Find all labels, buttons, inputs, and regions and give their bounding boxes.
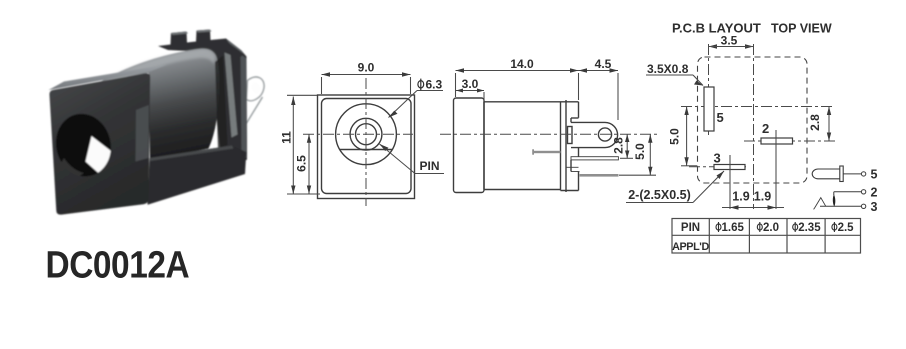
svg-text:PIN: PIN — [681, 222, 700, 234]
svg-text:9.0: 9.0 — [358, 61, 375, 75]
dimension line 9.0 — [322, 74, 411, 76]
pin loop (metal) — [247, 77, 265, 101]
dimension line 5.0 (side) — [649, 134, 651, 175]
extension lines — [455, 73, 457, 97]
dims front view — [287, 75, 444, 195]
dimension line 11 — [292, 97, 294, 195]
svg-text:3.0: 3.0 — [462, 77, 479, 91]
tray rim light edge — [150, 146, 234, 162]
pin tail wire — [241, 97, 263, 133]
switch junction drop from pin 2 wire — [833, 192, 835, 195]
svg-text:3: 3 — [871, 200, 878, 214]
tick slot 3 level — [681, 165, 697, 167]
wire pin 2 — [834, 191, 862, 193]
svg-text:2.35: 2.35 — [798, 222, 821, 234]
dimension line 3.5 — [709, 46, 754, 48]
svg-text:14.0: 14.0 — [510, 57, 534, 71]
pad slot pin 5 — [704, 87, 714, 131]
tray (lower body) — [148, 146, 247, 205]
center pin (side view) — [533, 151, 561, 153]
wedge of light inside hole — [86, 136, 114, 178]
svg-text:2.0: 2.0 — [763, 222, 779, 234]
center pin circle — [356, 124, 377, 145]
front view outer flange square — [318, 95, 415, 199]
front view horizontal centerline — [303, 133, 413, 135]
dimension line 2.8 (pcb) — [828, 107, 830, 142]
post top bevel light — [226, 39, 245, 55]
svg-text:4.5: 4.5 — [595, 57, 612, 71]
svg-text:2: 2 — [762, 121, 769, 136]
slot 3 centerline — [689, 166, 749, 168]
pcb body outline (dashed) — [698, 57, 808, 183]
dimension line 14.0 — [456, 70, 579, 72]
wire pin 3 — [820, 205, 861, 207]
svg-text:APPL'D: APPL'D — [672, 241, 709, 253]
pcb vertical centerline — [753, 44, 755, 209]
svg-text:5.0: 5.0 — [633, 143, 647, 160]
svg-text:6.3: 6.3 — [426, 78, 443, 92]
switch movable contact blade — [833, 194, 836, 206]
solder lug with hole — [571, 122, 618, 147]
label dia 6.3 — [418, 79, 424, 91]
terminal pin 5 — [861, 172, 865, 176]
flange step lines — [570, 160, 572, 172]
plug size table grid — [672, 219, 861, 254]
rear frame (bracket with tabs and right post) — [158, 30, 247, 165]
svg-text:5: 5 — [871, 168, 878, 182]
flange slot detail — [568, 127, 573, 144]
connector product photo — [49, 30, 265, 215]
bushing outer circle — [336, 104, 397, 165]
svg-text:2.5: 2.5 — [838, 222, 855, 234]
shadow between cylinder and post — [215, 56, 228, 149]
frame right edge light — [241, 56, 247, 159]
dimension line 1.9 1.9 — [722, 207, 784, 209]
plate right edge light strip — [136, 105, 149, 162]
terminal pin 3 (side view) — [580, 174, 619, 177]
plate top band — [49, 65, 168, 91]
pad slot pin 2 — [761, 138, 793, 144]
svg-text:2.8: 2.8 — [612, 137, 626, 154]
extension line slot 3 — [729, 155, 731, 209]
svg-text:1.9: 1.9 — [754, 190, 771, 204]
dimension line 6.5 — [308, 134, 310, 194]
arrowheads front view — [291, 72, 410, 194]
front view body square (rounded) — [322, 99, 412, 194]
svg-text:TOP VIEW: TOP VIEW — [771, 22, 832, 36]
svg-text:P.C.B LAYOUT: P.C.B LAYOUT — [672, 21, 761, 36]
dimension line 4.5 — [579, 70, 619, 72]
svg-text:5: 5 — [717, 110, 724, 125]
plate front face — [49, 73, 150, 214]
side view main body outline — [484, 101, 579, 103]
terminal pin 2 — [861, 190, 865, 194]
leader 3.5X0.8 — [646, 74, 693, 76]
slot 2 centerline — [744, 140, 835, 142]
extension line slot 2 — [775, 130, 777, 209]
leader for dia 6.3 label — [417, 90, 443, 92]
groove shadow where barrel meets plate top — [96, 75, 150, 90]
svg-text:3.5X0.8: 3.5X0.8 — [647, 62, 689, 76]
svg-text:5.0: 5.0 — [668, 128, 682, 145]
tab top light slivers — [171, 32, 188, 36]
dimension line 5.0 (pcb) — [686, 107, 688, 166]
leader for 2-(2.5X0.5) label — [626, 202, 693, 204]
dims side view — [456, 71, 725, 203]
arrowheads side view — [456, 68, 725, 179]
barrel top highlight — [104, 49, 216, 87]
wire center contact to pin 5 — [843, 173, 861, 175]
plug symbol (DC plug inserted) — [812, 166, 843, 182]
lug hole — [598, 128, 611, 141]
svg-text:2.8: 2.8 — [808, 114, 822, 131]
switch spring arm — [814, 198, 826, 210]
side view centerline — [440, 133, 658, 135]
chord edge line — [340, 149, 393, 151]
svg-text:2: 2 — [871, 186, 878, 200]
slot 5 centerline — [708, 44, 710, 136]
svg-text:DC0012A: DC0012A — [46, 244, 190, 286]
bushing hole circle dia 6.3 — [350, 118, 382, 150]
svg-text:3: 3 — [714, 151, 721, 166]
svg-text:PIN: PIN — [419, 159, 439, 173]
side view front collar — [454, 98, 485, 193]
arrowheads pcb — [684, 44, 831, 209]
svg-text:3.5: 3.5 — [721, 34, 738, 48]
terminal pin 3 — [861, 204, 865, 208]
svg-text:1.65: 1.65 — [722, 222, 745, 234]
frame post chamfer light (full height) — [225, 53, 238, 138]
pad slot pin 3 — [714, 165, 745, 170]
svg-text:1.9: 1.9 — [732, 190, 749, 204]
front view vertical centerline — [365, 78, 367, 206]
terminal pin 2 (side view) — [571, 157, 618, 160]
dimension line 3.0 — [456, 90, 484, 92]
table texts — [672, 222, 854, 253]
barrel — [96, 49, 220, 161]
pcb horizontal centerline — [681, 106, 835, 108]
svg-text:11: 11 — [280, 131, 294, 144]
dimension line 2.8 (side) — [626, 134, 628, 158]
svg-text:2-(2.5X0.5): 2-(2.5X0.5) — [628, 188, 691, 202]
hole — [49, 108, 117, 182]
svg-text:6.5: 6.5 — [295, 155, 309, 172]
leader for PIN label — [415, 173, 444, 175]
